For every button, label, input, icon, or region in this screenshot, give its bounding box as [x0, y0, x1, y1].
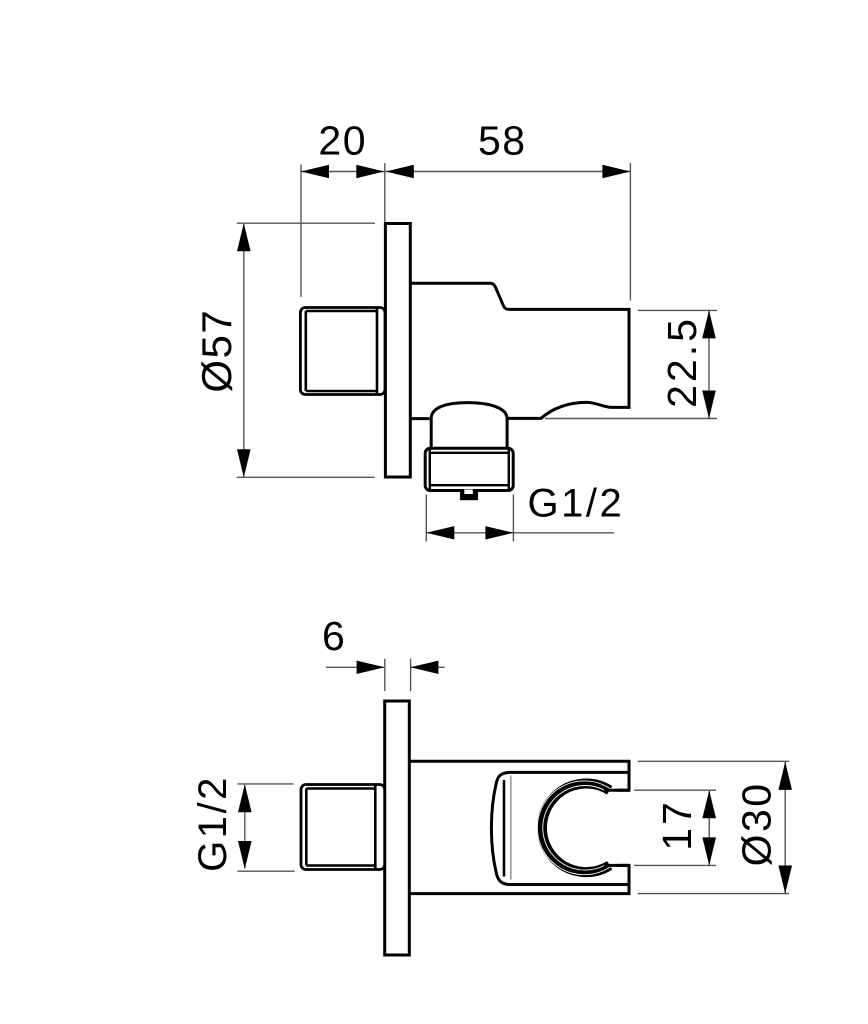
svg-text:20: 20: [318, 118, 367, 164]
elbow body outline (top figure): [410, 283, 629, 418]
svg-text:Ø30: Ø30: [734, 781, 780, 866]
arrow 17 down: [702, 837, 716, 865]
holder bracket end face edge: [503, 780, 506, 877]
arrow 58 left: [386, 165, 414, 178]
extension line for flange wall face: [384, 163, 386, 222]
dimension G1/2 (bottom) extension lines: [237, 784, 294, 871]
threaded inlet stub G1/2 (bottom figure) outer body: [301, 785, 385, 870]
dimension 17 line: [708, 791, 710, 865]
extension line for stub left face: [300, 164, 302, 297]
holder cup ring (thick dark C): [542, 784, 610, 873]
holder bracket rounded shell (bottom figure): [491, 772, 628, 884]
dimension G1/2 (bottom) line: [244, 785, 246, 869]
arrow 17 up: [702, 790, 716, 818]
dimension Ø57 line: [243, 224, 245, 477]
dimension 17 extension lines: [634, 790, 716, 865]
dimension 6 line right segment: [410, 666, 444, 668]
holder cup step lines: [604, 790, 629, 865]
threaded inlet stub inner thread lines (top figure): [306, 308, 377, 394]
dimension Ø30 extension lines: [638, 761, 789, 893]
dimension 22.5 extension lines: [545, 310, 717, 418]
dimension G1/2 (top) line: [426, 532, 614, 534]
svg-text:58: 58: [478, 118, 527, 164]
arrow Ø57 down: [237, 449, 251, 477]
threaded inlet stub inner thread lines (bottom figure): [306, 785, 375, 869]
arrow 22.5 up: [702, 310, 716, 338]
wall flange plate (side view, top figure): [385, 224, 410, 478]
arrow 20 right: [356, 165, 384, 178]
svg-text:G1/2: G1/2: [528, 482, 625, 526]
svg-text:Ø57: Ø57: [193, 309, 240, 393]
holder bracket edge highlight line: [510, 776, 512, 880]
dimension 20/58 shared dimension line: [301, 171, 630, 173]
arrow Ø57 up: [237, 223, 251, 251]
outlet boss dome and cylinder (top figure): [431, 403, 507, 448]
arrow G1/2 bottom up: [238, 784, 252, 812]
dimension 6 extension lines: [385, 659, 411, 691]
svg-text:G1/2: G1/2: [191, 775, 235, 872]
dimension 6 line left segment: [326, 666, 385, 668]
arrow G1/2 bottom down: [238, 841, 252, 869]
dimension Ø57 extension lines: [237, 223, 375, 477]
outlet nut chamfer lines (top figure): [430, 449, 509, 489]
wall flange plate (bottom figure): [385, 701, 410, 955]
arrow G1/2 left: [426, 526, 454, 539]
outlet nut (top figure): [425, 448, 513, 490]
holder cup ring white slit inner: [543, 786, 605, 871]
dimension G1/2 (top) extension lines: [426, 495, 513, 542]
holder cup ring white slit outer: [537, 781, 613, 875]
svg-text:17: 17: [654, 799, 700, 851]
dimension Ø30 line: [784, 762, 786, 893]
arrow Ø30 down: [778, 866, 792, 894]
arrow G1/2 right: [485, 526, 513, 539]
outlet nipple tip (top figure): [460, 490, 478, 501]
svg-text:6: 6: [322, 613, 346, 659]
dimension 22.5 line: [708, 311, 710, 418]
arrow 22.5 down: [702, 391, 716, 419]
extension line for body right end (58): [629, 163, 631, 301]
arrow 20 left: [301, 165, 329, 178]
arrow 6 right (points left): [410, 661, 438, 674]
holder body outline (bottom figure): [409, 761, 629, 893]
arrow Ø30 up: [778, 762, 792, 790]
svg-text:22.5: 22.5: [659, 316, 705, 408]
arrow 58 right: [602, 165, 630, 178]
threaded inlet stub G1/2 (top figure) outer body: [300, 308, 385, 395]
arrow 6 left (points right): [357, 661, 385, 674]
